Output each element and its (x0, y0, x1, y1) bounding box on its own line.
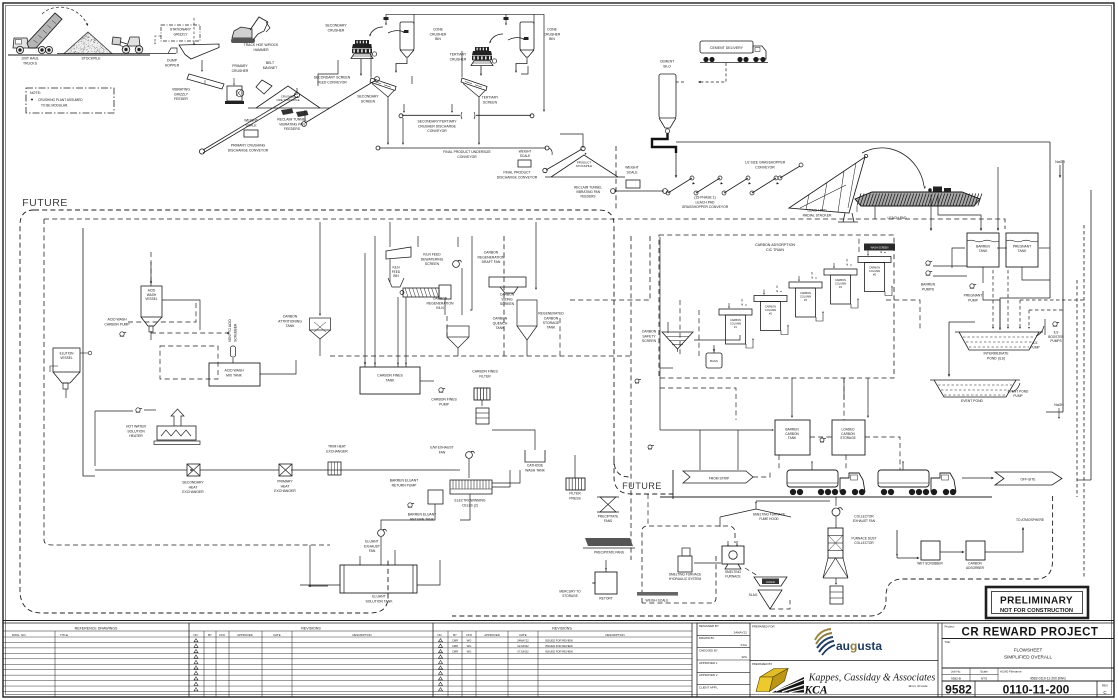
svg-text:INTERMEDIATE: INTERMEDIATE (984, 352, 1010, 356)
svg-text:EXHAUST: EXHAUST (364, 544, 380, 548)
svg-text:24MAY22: 24MAY22 (517, 639, 529, 643)
svg-text:NOT FOR CONSTRUCTION: NOT FOR CONSTRUCTION (1000, 608, 1073, 614)
svg-text:CARBON: CARBON (544, 316, 559, 320)
svg-text:FINAL PRODUCT UNDERSIZE: FINAL PRODUCT UNDERSIZE (443, 150, 491, 154)
svg-text:DESIGNED BY: DESIGNED BY (699, 624, 719, 628)
svg-text:DRAWN BY: DRAWN BY (699, 636, 715, 640)
svg-text:BIN: BIN (549, 37, 555, 41)
svg-text:Title:: Title: (945, 640, 952, 644)
svg-text:WEIGHT: WEIGHT (519, 150, 532, 154)
svg-text:TANK: TANK (788, 436, 797, 440)
svg-text:SMELTING: SMELTING (725, 570, 742, 574)
svg-text:TANK: TANK (979, 249, 988, 253)
svg-text:SCRUBBER: SCRUBBER (234, 323, 238, 342)
svg-text:SOLUTION TANK: SOLUTION TANK (365, 599, 393, 603)
svg-text:DEWATERING: DEWATERING (421, 257, 444, 261)
svg-text:CIC TRAIN: CIC TRAIN (766, 248, 784, 252)
svg-text:GRIZZLY: GRIZZLY (173, 33, 188, 37)
svg-text:DISCHARGE CONVEYOR: DISCHARGE CONVEYOR (228, 148, 269, 152)
svg-text:STATIONARY: STATIONARY (170, 28, 192, 32)
svg-text:RETURN TANK: RETURN TANK (410, 517, 435, 521)
svg-text:CATHODE: CATHODE (527, 464, 544, 468)
svg-text:COLUMN: COLUMN (869, 269, 880, 273)
svg-text:MAGNET: MAGNET (263, 66, 278, 70)
svg-text:1/2 SIZE GRASSHOPPER: 1/2 SIZE GRASSHOPPER (745, 161, 786, 165)
svg-text:LEACH PAD: LEACH PAD (808, 209, 828, 213)
svg-text:CR REWARD PROJECT: CR REWARD PROJECT (962, 627, 1099, 639)
svg-text:TRIM HEAT: TRIM HEAT (328, 445, 346, 449)
svg-text:DISCHARGE CONVEYOR: DISCHARGE CONVEYOR (497, 175, 538, 179)
svg-text:FUTURE: FUTURE (22, 197, 68, 209)
svg-text:CONVEYOR: CONVEYOR (457, 155, 477, 159)
svg-text:REVISIONS: REVISIONS (301, 627, 321, 631)
svg-text:CMR: CMR (452, 639, 458, 643)
svg-text:PUMP: PUMP (1030, 346, 1039, 350)
svg-text:TERTIARY: TERTIARY (482, 96, 499, 100)
svg-text:REFERENCE DRAWINGS: REFERENCE DRAWINGS (75, 627, 118, 631)
svg-text:CONE: CONE (547, 28, 558, 32)
svg-text:HOT WATER: HOT WATER (126, 425, 146, 429)
svg-text:SECONDARY: SECONDARY (325, 24, 347, 28)
svg-text:FROM STRIP: FROM STRIP (709, 476, 730, 480)
svg-text:APPROVED: APPROVED (237, 633, 253, 637)
svg-text:SECONDARY: SECONDARY (357, 95, 379, 99)
svg-text:TRACK HOE W/ROCK: TRACK HOE W/ROCK (244, 43, 279, 47)
svg-text:CARBON: CARBON (433, 297, 448, 301)
svg-text:TANK: TANK (1018, 249, 1027, 253)
svg-text:Kappes, Cassiday & Associates: Kappes, Cassiday & Associates (808, 673, 936, 684)
svg-text:DUMP: DUMP (167, 59, 178, 63)
svg-text:CARBON: CARBON (493, 317, 508, 321)
svg-text:CONVEYOR: CONVEYOR (427, 129, 447, 133)
svg-text:CARBON FINES: CARBON FINES (431, 398, 457, 402)
svg-text:CARBON: CARBON (730, 318, 741, 322)
svg-text:WASH SCREEN: WASH SCREEN (871, 247, 889, 250)
svg-text:TRUCKS: TRUCKS (23, 61, 38, 65)
svg-text:DATE: DATE (519, 633, 526, 637)
svg-text:PRIMARY: PRIMARY (277, 480, 293, 484)
svg-text:SCALE: SCALE (520, 154, 530, 158)
svg-text:ISSUED FOR REVIEW: ISSUED FOR REVIEW (545, 650, 573, 654)
svg-text:SECONDARY: SECONDARY (182, 481, 204, 485)
svg-text:EVENT POND: EVENT POND (961, 399, 984, 403)
svg-text:PRIMARY CRUSHING: PRIMARY CRUSHING (231, 144, 266, 148)
svg-text:REVISIONS: REVISIONS (552, 627, 572, 631)
svg-text:HAMMER: HAMMER (253, 48, 269, 52)
svg-text:DESCRIPTION: DESCRIPTION (352, 633, 371, 637)
svg-text:CARBON: CARBON (500, 293, 515, 297)
svg-text:CARBON: CARBON (484, 251, 499, 255)
svg-text:FLOWSHEET: FLOWSHEET (1014, 648, 1043, 653)
svg-text:SCREEN: SCREEN (642, 339, 657, 343)
svg-text:ELUANT: ELUANT (372, 595, 385, 599)
svg-text:CONVEYOR: CONVEYOR (755, 165, 775, 169)
svg-text:CRUSHER DISCHARGE: CRUSHER DISCHARGE (418, 124, 457, 128)
svg-text:CRUSHER: CRUSHER (232, 69, 249, 73)
svg-text:STORAGE: STORAGE (543, 321, 560, 325)
svg-text:ACID WASH: ACID WASH (224, 369, 244, 373)
svg-text:Project:: Project: (945, 625, 955, 629)
svg-text:ORE STOCKPILE: ORE STOCKPILE (276, 98, 299, 102)
svg-text:HEATER: HEATER (129, 434, 143, 438)
svg-text:SMELTING FURNACE: SMELTING FURNACE (753, 513, 785, 517)
svg-text:augusta: augusta (836, 639, 882, 653)
svg-text:9582-B: 9582-B (951, 676, 961, 680)
svg-text:WEIGHT: WEIGHT (244, 119, 258, 123)
svg-text:EXHAUST FAN: EXHAUST FAN (853, 519, 876, 523)
svg-text:PREGNANT: PREGNANT (1013, 245, 1031, 249)
svg-text:PUMP: PUMP (1013, 394, 1022, 398)
svg-text:EXCHANGER: EXCHANGER (326, 449, 348, 453)
svg-text:SCALE: SCALE (626, 170, 638, 174)
svg-text:DWG. NO.: DWG. NO. (12, 633, 26, 637)
svg-text:SCREEN: SCREEN (425, 262, 440, 266)
svg-text:REGENERATED: REGENERATED (538, 312, 564, 316)
svg-text:BELT: BELT (266, 61, 274, 65)
svg-text:WG: WG (467, 639, 472, 643)
svg-text:SILO: SILO (663, 64, 671, 68)
svg-text:Scale: Scale (980, 669, 988, 673)
svg-text:MERCURY TO: MERCURY TO (559, 590, 581, 594)
svg-text:CRUSHER: CRUSHER (450, 57, 467, 61)
svg-text:ISSUED FOR REVIEW: ISSUED FOR REVIEW (545, 644, 573, 648)
svg-text:HOPPER: HOPPER (165, 63, 180, 67)
svg-text:ATTRITIONING: ATTRITIONING (278, 319, 302, 323)
svg-text:SOLUTION: SOLUTION (127, 429, 145, 433)
svg-text:9582-0110-11-200.DWG: 9582-0110-11-200.DWG (1030, 677, 1066, 681)
svg-text:VIBRATING: VIBRATING (172, 88, 190, 92)
svg-text:CARBON FINES: CARBON FINES (472, 370, 498, 374)
svg-text:FINAL PRODUCT: FINAL PRODUCT (503, 171, 530, 175)
svg-text:FILTER: FILTER (479, 374, 491, 378)
svg-text:FEEDERS: FEEDERS (580, 194, 595, 198)
svg-text:SECONDARY/TERTIARY: SECONDARY/TERTIARY (417, 120, 457, 124)
svg-text:BIN: BIN (393, 274, 399, 278)
svg-text:CARBON: CARBON (800, 291, 811, 295)
svg-text:GRIZZLY: GRIZZLY (174, 92, 189, 96)
svg-text:100T HAUL: 100T HAUL (21, 57, 39, 61)
svg-text:FUTURE: FUTURE (622, 481, 662, 491)
svg-text:ACAD Filename: ACAD Filename (1000, 669, 1022, 673)
svg-text:GRASSHOPPER CONVEYOR: GRASSHOPPER CONVEYOR (682, 205, 729, 209)
svg-text:BAGS: BAGS (710, 359, 718, 363)
svg-text:TANK: TANK (386, 378, 396, 382)
svg-text:CARBON: CARBON (835, 278, 846, 282)
svg-text:DESCRIPTION: DESCRIPTION (605, 633, 624, 637)
svg-text:NO.: NO. (194, 633, 199, 637)
svg-text:FURNACE DUST: FURNACE DUST (852, 537, 877, 541)
svg-text:Reno, Nevada: Reno, Nevada (907, 684, 927, 689)
svg-text:WG: WG (467, 650, 472, 654)
svg-text:RETORT: RETORT (599, 597, 612, 601)
svg-text:VIBRATING PAN: VIBRATING PAN (576, 190, 601, 194)
svg-text:CARBON: CARBON (765, 305, 776, 309)
svg-text:PREPARED FOR: PREPARED FOR (752, 624, 775, 628)
svg-text:NaOH: NaOH (1055, 160, 1065, 164)
svg-text:SIMPLIFIED OVERALL: SIMPLIFIED OVERALL (1004, 655, 1052, 660)
svg-text:CARBON: CARBON (869, 266, 880, 270)
svg-text:SCALE: SCALE (245, 123, 257, 127)
svg-text:FAN: FAN (369, 549, 376, 553)
svg-text:KILN: KILN (436, 306, 444, 310)
svg-text:REGENERATION: REGENERATION (478, 255, 505, 259)
svg-text:FUME HOOD: FUME HOOD (759, 517, 779, 521)
svg-text:HEAT: HEAT (189, 485, 198, 489)
svg-text:COLLECTOR: COLLECTOR (854, 541, 874, 545)
svg-text:REGENERATION: REGENERATION (427, 301, 454, 305)
svg-text:BIN: BIN (435, 37, 441, 41)
svg-text:COLUMN: COLUMN (800, 294, 811, 298)
svg-text:CRUSHER: CRUSHER (328, 28, 345, 32)
svg-text:TANK: TANK (496, 326, 506, 330)
svg-text:Job No.: Job No. (951, 669, 962, 673)
svg-text:ISSUED FOR REVIEW: ISSUED FOR REVIEW (545, 639, 573, 643)
svg-text:DRAFT FAN: DRAFT FAN (482, 260, 501, 264)
svg-text:SMELTING FURNACE: SMELTING FURNACE (669, 573, 701, 577)
svg-text:WG: WG (742, 655, 748, 659)
svg-text:FEEDERS: FEEDERS (284, 127, 301, 131)
svg-text:ACID WASH: ACID WASH (107, 318, 127, 322)
svg-text:WET SCRUBBER: WET SCRUBBER (917, 562, 943, 566)
svg-text:ILS: ILS (1033, 341, 1038, 345)
svg-text:ADSORBER: ADSORBER (966, 566, 985, 570)
svg-text:FAN: FAN (439, 450, 446, 454)
svg-text:PRESS: PRESS (569, 496, 581, 500)
svg-text:FURNACE: FURNACE (725, 574, 740, 578)
svg-text:VENT TO ACID: VENT TO ACID (228, 319, 232, 342)
svg-text:KCA: KCA (741, 643, 748, 647)
svg-text:CEMENT: CEMENT (660, 60, 674, 64)
svg-text:COLLECTOR: COLLECTOR (854, 515, 874, 519)
svg-text:BY: BY (208, 633, 212, 637)
svg-text:APPROVED 1: APPROVED 1 (699, 661, 718, 665)
svg-text:HYDRAULIC SYSTEM: HYDRAULIC SYSTEM (669, 577, 702, 581)
svg-text:FANS: FANS (604, 519, 612, 523)
svg-text:SAFETY: SAFETY (642, 334, 656, 338)
svg-text:DATE: DATE (273, 633, 280, 637)
svg-text:VESSEL: VESSEL (60, 356, 73, 360)
svg-text:BARREN: BARREN (921, 283, 936, 287)
svg-text:LEACH PAD: LEACH PAD (696, 200, 716, 204)
svg-text:STOCKPILE: STOCKPILE (82, 57, 102, 61)
svg-text:PUMPS: PUMPS (1050, 339, 1061, 343)
svg-text:APPROVED: APPROVED (484, 633, 500, 637)
svg-text:CARBON PUMP: CARBON PUMP (104, 322, 130, 326)
svg-text:CARBON: CARBON (968, 562, 982, 566)
svg-text:E/W EXHAUST: E/W EXHAUST (430, 446, 453, 450)
svg-text:9582: 9582 (945, 683, 972, 697)
svg-text:PRIMARY: PRIMARY (232, 64, 248, 68)
svg-text:RECLAIM TUNNEL: RECLAIM TUNNEL (574, 186, 602, 190)
svg-text:FEEDER: FEEDER (174, 97, 188, 101)
svg-text:PREGNANT: PREGNANT (964, 294, 983, 298)
svg-text:CARBON: CARBON (642, 330, 657, 334)
svg-text:SCREEN: SCREEN (361, 99, 376, 103)
svg-text:02JUN22: 02JUN22 (517, 644, 529, 648)
svg-text:CLIENT APP'L: CLIENT APP'L (699, 685, 718, 689)
svg-text:WEIGHT: WEIGHT (625, 166, 639, 170)
svg-text:PRECIPITATE: PRECIPITATE (598, 515, 618, 519)
svg-text:FILTER: FILTER (569, 492, 581, 496)
svg-text:CARBON FINES: CARBON FINES (377, 374, 403, 378)
svg-text:24MAY22: 24MAY22 (734, 631, 748, 635)
svg-text:RETURN PUMP: RETURN PUMP (392, 483, 418, 487)
svg-text:SCREEN: SCREEN (500, 302, 515, 306)
svg-text:NaOH: NaOH (1054, 403, 1064, 407)
svg-text:TERTIARY: TERTIARY (450, 53, 467, 57)
svg-text:PUMP: PUMP (968, 298, 979, 302)
svg-text:CMR: CMR (452, 650, 458, 654)
svg-text:EXCHANGER: EXCHANGER (274, 489, 296, 493)
svg-text:TANK: TANK (286, 324, 296, 328)
svg-text:SIZING: SIZING (501, 297, 513, 301)
svg-text:CMR: CMR (452, 644, 458, 648)
svg-text:KCA: KCA (804, 685, 828, 697)
svg-text:COLUMN: COLUMN (730, 321, 741, 325)
svg-text:MIX TANK: MIX TANK (226, 373, 242, 377)
svg-text:CONE: CONE (433, 28, 444, 32)
svg-text:POND (ILS): POND (ILS) (987, 356, 1005, 360)
svg-text:HEAT: HEAT (281, 484, 290, 488)
svg-text:RECLAIM TUNNEL: RECLAIM TUNNEL (277, 118, 307, 122)
svg-text:(15-PHASE 1): (15-PHASE 1) (694, 196, 715, 200)
svg-text:GOLD: GOLD (766, 580, 775, 584)
svg-text:NTS: NTS (981, 676, 987, 680)
svg-text:CK'D: CK'D (466, 633, 472, 637)
svg-text:WG: WG (467, 644, 472, 648)
svg-text:NO.: NO. (438, 633, 443, 637)
svg-text:PRELIMINARY: PRELIMINARY (1000, 596, 1073, 607)
svg-text:STOCKPILE: STOCKPILE (576, 164, 592, 168)
svg-text:STORAGE: STORAGE (840, 436, 856, 440)
svg-text:FEED CONVEYOR: FEED CONVEYOR (317, 80, 347, 84)
svg-text:CK'D: CK'D (219, 633, 225, 637)
svg-text:STORAGE: STORAGE (562, 594, 578, 598)
svg-text:VESSEL: VESSEL (145, 297, 158, 301)
svg-text:BY: BY (453, 633, 457, 637)
svg-text:TANK: TANK (547, 326, 557, 330)
svg-text:PRECIPITATE PANS: PRECIPITATE PANS (594, 551, 624, 555)
svg-text:SECONDARY SCREEN: SECONDARY SCREEN (314, 76, 351, 80)
svg-text:EXCHANGER: EXCHANGER (182, 490, 204, 494)
svg-text:CHECKED BY: CHECKED BY (699, 648, 718, 652)
svg-text:REV: REV (1102, 684, 1108, 688)
svg-text:BARREN: BARREN (976, 245, 990, 249)
svg-text:SLAG: SLAG (749, 593, 758, 597)
svg-text:CRUSHING PLANT ASSUMED: CRUSHING PLANT ASSUMED (38, 98, 83, 102)
svg-text:CEMENT DELIVERY: CEMENT DELIVERY (710, 46, 744, 50)
svg-text:PUMPS: PUMPS (922, 287, 935, 291)
svg-text:BARREN ELUANT: BARREN ELUANT (390, 479, 418, 483)
svg-text:QUENCH: QUENCH (493, 321, 508, 325)
svg-text:TO BE MODULAR.: TO BE MODULAR. (41, 104, 68, 108)
svg-text:PUMP: PUMP (439, 402, 450, 406)
svg-text:SCREEN: SCREEN (483, 100, 498, 104)
svg-text:KILN FEED: KILN FEED (423, 253, 441, 257)
svg-text:WASH TANK: WASH TANK (525, 468, 545, 472)
svg-text:CRUSHER: CRUSHER (544, 32, 561, 36)
svg-text:RADIAL STACKER: RADIAL STACKER (803, 213, 832, 217)
svg-text:WEIGH SCALE: WEIGH SCALE (646, 599, 670, 603)
svg-text:NOTE:: NOTE: (30, 91, 41, 95)
svg-text:CARBON: CARBON (283, 315, 298, 319)
svg-text:APPROVED 2: APPROVED 2 (699, 673, 718, 677)
svg-text:ELUANT: ELUANT (365, 540, 378, 544)
svg-text:PREPARED BY: PREPARED BY (752, 662, 772, 666)
svg-text:CRUSHER: CRUSHER (430, 32, 447, 36)
svg-text:0110-11-200: 0110-11-200 (1003, 683, 1070, 697)
svg-text:CARBON ADSORPTION: CARBON ADSORPTION (755, 243, 795, 247)
svg-text:TO ATMOSPHERE: TO ATMOSPHERE (1016, 518, 1045, 522)
svg-text:07JUN22: 07JUN22 (517, 650, 529, 654)
svg-text:TITLE: TITLE (60, 633, 68, 637)
svg-text:COLUMN: COLUMN (835, 281, 846, 285)
svg-text:BARREN ELUANT: BARREN ELUANT (408, 513, 436, 517)
svg-text:OFF-SITE: OFF-SITE (1020, 478, 1036, 482)
svg-text:COLUMN: COLUMN (765, 308, 776, 312)
